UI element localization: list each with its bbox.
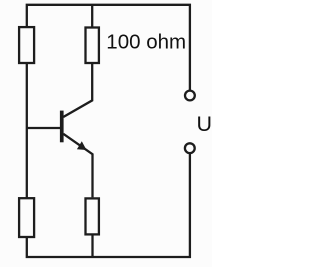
svg-text:100 ohm: 100 ohm: [106, 31, 186, 54]
svg-text:U: U: [197, 112, 213, 136]
